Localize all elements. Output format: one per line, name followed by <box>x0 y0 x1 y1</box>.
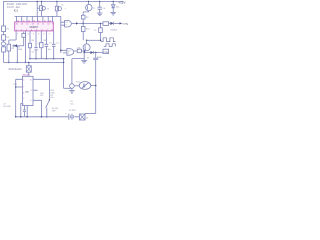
wire zero volt line <box>3 61 63 63</box>
svg-text:2: 2 <box>23 98 24 100</box>
junction B <box>17 62 19 64</box>
wire pin2 branch <box>17 32 23 63</box>
svg-text:IC2: IC2 <box>68 50 71 52</box>
transistor Q4 speaker <box>70 84 75 89</box>
junction R9 bottom <box>82 23 84 25</box>
svg-text:4148: 4148 <box>18 49 23 51</box>
resistor R10 <box>82 23 84 40</box>
wire IC2 pin3 right <box>33 100 42 117</box>
svg-text:C3: C3 <box>49 42 52 44</box>
switch S1 <box>46 96 50 117</box>
svg-text:R13: R13 <box>13 84 16 86</box>
junction ZD1 rail <box>113 1 114 2</box>
node waveform glyph 2 <box>104 44 115 47</box>
junction collector-R12 <box>100 40 102 42</box>
junction C <box>25 62 27 64</box>
wire bottom rail <box>16 116 80 118</box>
svg-text:+: + <box>65 8 67 10</box>
wire emitter run <box>84 51 103 53</box>
wire clock bus <box>15 15 61 17</box>
svg-text:+: + <box>65 113 67 115</box>
resistor R11 <box>74 50 77 52</box>
node component labels row <box>32 40 60 53</box>
ground ZD1 <box>110 12 116 15</box>
ground C6 <box>97 13 103 16</box>
LED D1 <box>1 42 5 46</box>
svg-text:13: 13 <box>33 20 35 22</box>
junction Q2 base <box>84 50 85 51</box>
svg-text:7: 7 <box>23 86 24 88</box>
svg-text:47k: 47k <box>40 95 43 97</box>
wire IC2 pin5 stub <box>33 89 38 91</box>
svg-text:IC1: IC1 <box>14 9 19 13</box>
svg-text:IC2: IC2 <box>66 22 69 24</box>
node IC1 name <box>30 27 39 29</box>
svg-text:b: b <box>68 52 69 54</box>
junction C3 bottom <box>46 58 48 60</box>
transistor Q1 <box>86 4 92 10</box>
svg-text:12: 12 <box>38 20 40 22</box>
svg-text:R1: R1 <box>6 29 10 31</box>
junction VR2 top <box>56 1 57 2</box>
wire IC2 pin2 left <box>21 103 23 116</box>
op-amp U2 gate <box>65 20 72 27</box>
junction C2 bottom <box>35 58 37 60</box>
resistor R12 <box>100 23 102 40</box>
svg-text:C2: C2 <box>32 52 35 54</box>
svg-text:C1-C5 : disc: C1-C5 : disc <box>7 6 21 9</box>
node waveform glyph 1 <box>101 38 116 42</box>
svg-text:5: 5 <box>30 100 31 102</box>
svg-text:9V PP3: 9V PP3 <box>69 110 77 112</box>
node IC1 label <box>14 9 19 13</box>
preset VR2 <box>56 1 58 16</box>
wire IC2 pin gnd <box>26 106 28 117</box>
diode D5 <box>90 51 93 54</box>
junction R12 top <box>100 23 102 25</box>
pin numbers IC1 outside top <box>17 20 51 22</box>
svg-text:10n: 10n <box>50 97 53 99</box>
wire +12V top rail <box>3 0 123 2</box>
diode D2 <box>12 45 24 47</box>
junction VR1 top <box>41 1 42 2</box>
wire speaker drop <box>72 59 84 84</box>
node IC2 name <box>25 91 29 93</box>
svg-text:7: 7 <box>49 33 50 35</box>
buzzer BZ1 <box>79 82 91 90</box>
svg-text:4: 4 <box>33 33 34 35</box>
resistor R3 <box>2 47 6 52</box>
diode D4 <box>110 22 113 25</box>
node output arrow <box>120 22 123 24</box>
junction C6 rail <box>99 1 100 2</box>
svg-text:CON: CON <box>104 52 109 54</box>
svg-text:OFF: OFF <box>52 110 57 112</box>
svg-text:R10: R10 <box>86 28 91 30</box>
wire IC2 pin8 right <box>33 79 49 96</box>
junction R4 bottom <box>29 58 31 60</box>
wire speaker-buzzer <box>74 85 79 87</box>
wire IC2 pin4 left <box>16 79 23 117</box>
svg-text:a: a <box>66 24 67 26</box>
svg-text:NE555: NE555 <box>23 74 30 76</box>
wire main vertical <box>60 16 62 53</box>
node D4 label <box>110 30 118 32</box>
wire bottom right return <box>85 112 96 114</box>
resistor R2 <box>2 35 6 40</box>
node R13 label <box>13 84 16 86</box>
resistor R9 <box>82 12 84 24</box>
svg-text:10: 10 <box>49 20 51 22</box>
resistor R1 <box>2 26 6 32</box>
wire gate output run <box>79 22 101 24</box>
junction bottom left <box>15 116 17 118</box>
svg-text:3: 3 <box>30 90 31 92</box>
node Multivibrator label <box>9 68 22 71</box>
pin numbers IC1 outside bottom <box>17 33 50 35</box>
connector J1 <box>80 114 86 120</box>
op-amp U1 IC1 body <box>15 22 54 31</box>
svg-text:To Rly: To Rly <box>122 24 129 26</box>
zener ZD1 <box>112 1 114 12</box>
node C7 label <box>3 104 11 109</box>
op-amp U3 IC2 555 <box>22 76 33 105</box>
pin stub IC1 pin1 <box>15 31 17 40</box>
wire zero to speaker <box>64 87 72 89</box>
svg-text:8: 8 <box>30 80 31 82</box>
capacitor C2 <box>35 31 37 59</box>
junction emitter <box>83 52 85 54</box>
capacitor C3 <box>45 31 47 59</box>
svg-text:D5: D5 <box>87 58 90 60</box>
svg-text:5: 5 <box>38 33 39 35</box>
node +12V label <box>118 0 125 4</box>
svg-text:T3: T3 <box>61 4 64 6</box>
svg-text:1N4007: 1N4007 <box>110 30 118 32</box>
svg-text:3: 3 <box>28 33 29 35</box>
svg-text:CD4017: CD4017 <box>30 27 39 29</box>
svg-text:47u 16V: 47u 16V <box>3 106 11 108</box>
svg-text:R3: R3 <box>12 48 15 50</box>
resistor R5 <box>40 31 42 59</box>
resistor R16 under pin2 <box>22 33 26 37</box>
svg-text:+12V: +12V <box>118 0 125 4</box>
junction X1 top <box>28 62 30 64</box>
op-amp U2b oval gate <box>67 49 74 56</box>
battery BT1 <box>69 114 72 120</box>
svg-text:9V: 9V <box>86 118 89 120</box>
pin numbers IC2 <box>23 80 31 106</box>
note text line 1 <box>7 3 27 6</box>
junction main-zero <box>63 62 65 64</box>
svg-text:15: 15 <box>23 20 25 22</box>
svg-text:Multivibrator: Multivibrator <box>9 68 22 71</box>
node values text <box>40 90 54 99</box>
wire buzzer right <box>91 85 96 87</box>
transistor Q2 <box>83 44 90 51</box>
svg-text:C6: C6 <box>103 8 106 10</box>
wire ground rail mid <box>29 58 64 60</box>
svg-text:6: 6 <box>44 33 45 35</box>
junction buzzer-vertical <box>95 85 97 87</box>
ground speaker <box>71 88 73 90</box>
svg-text:1: 1 <box>17 33 18 35</box>
capacitor C4 <box>53 31 55 59</box>
note text line 2 <box>7 6 21 9</box>
resistor R4 <box>29 31 31 59</box>
wire C5 down <box>95 60 97 114</box>
junction C4 bottom <box>53 58 55 60</box>
node C9 label <box>70 101 73 106</box>
resistor R17 branch <box>9 40 16 62</box>
svg-text:C4: C4 <box>56 42 59 44</box>
node IN label <box>65 8 67 10</box>
junction rail-bus <box>37 1 38 2</box>
wire IC2 pin7 stub <box>16 86 23 88</box>
svg-text:R2: R2 <box>6 37 10 39</box>
pin numbers IC1 bottom <box>16 29 54 31</box>
capacitor C5 <box>95 52 97 54</box>
junction A <box>8 62 10 64</box>
svg-text:T1: T1 <box>93 8 96 10</box>
svg-text:R4: R4 <box>32 40 35 42</box>
capacitor C6 <box>99 1 101 12</box>
svg-text:10k: 10k <box>77 47 80 49</box>
svg-text:1k: 1k <box>94 30 96 32</box>
connector CON2 <box>103 49 109 53</box>
crystal X1 <box>28 62 30 76</box>
wire pin3 branch <box>24 31 26 63</box>
junction Q1 rail <box>88 1 89 2</box>
svg-text:11: 11 <box>44 20 46 22</box>
svg-text:6: 6 <box>23 92 24 94</box>
wire left supply branch <box>2 1 4 62</box>
resistor R6 horizontal <box>103 22 109 26</box>
junction collector-R10 <box>86 40 88 42</box>
junction main-rail <box>63 58 65 60</box>
svg-text:10u: 10u <box>70 104 73 106</box>
svg-text:10n: 10n <box>48 49 51 51</box>
capacitor C7 <box>23 106 25 117</box>
wire collector rail <box>87 39 101 41</box>
pin stubs IC1 top <box>16 16 52 22</box>
svg-text:14: 14 <box>28 20 30 22</box>
svg-text:4: 4 <box>23 80 24 82</box>
wire rail to bus <box>36 1 38 16</box>
svg-text:16: 16 <box>17 20 19 22</box>
preset VR1 <box>41 1 43 16</box>
junction gate out arrow <box>76 22 79 24</box>
svg-text:ZD1: ZD1 <box>116 6 121 8</box>
svg-text:T2: T2 <box>47 9 50 11</box>
pin numbers IC1 top <box>16 24 54 26</box>
svg-text:R9: R9 <box>86 17 89 19</box>
ground Q2 <box>83 52 85 60</box>
